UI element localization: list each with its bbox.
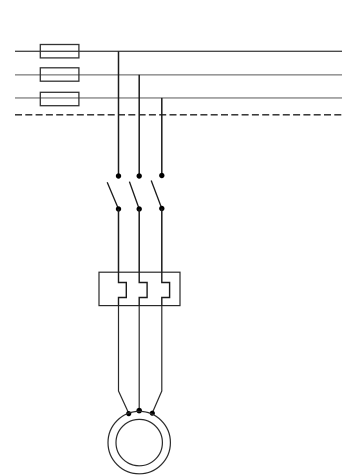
switch Q1 pole 3 upper contact (159, 173, 164, 178)
switch Q1 pole 1 blade (107, 182, 118, 209)
wire switch pole 2 to overload relay (138, 209, 140, 272)
wire switch pole 3 to overload relay (161, 209, 163, 273)
overload relay F4 heater element phase 3 (162, 272, 170, 305)
motor terminal V dot (136, 408, 142, 414)
bus L1 (15, 50, 342, 52)
switch Q1 pole 3 blade (151, 181, 162, 209)
fuse F1 (40, 45, 79, 58)
fuse F3 (40, 92, 79, 105)
motor terminal W dot (150, 411, 155, 416)
overload relay F4 heater element phase 1 (119, 272, 127, 305)
wire overload relay to motor terminal U (119, 306, 129, 414)
overload relay F4 enclosure (99, 272, 180, 305)
switch Q1 pole 1 lower contact (116, 206, 121, 211)
fuse F2 (40, 68, 79, 81)
switch Q1 pole 2 upper contact (137, 173, 142, 178)
bus L3 (15, 97, 342, 99)
switch Q1 pole 3 lower contact (159, 206, 164, 211)
neutral dashed bus N (15, 114, 342, 116)
motor M1 outer circle (108, 411, 170, 473)
overload relay F4 heater element phase 2 (139, 272, 147, 305)
motor terminal U dot (126, 411, 131, 416)
wire L1 tap to switch (118, 51, 120, 176)
wire L2 tap to switch (138, 75, 140, 176)
wire switch pole 1 to overload relay (118, 209, 120, 272)
switch Q1 pole 2 lower contact (137, 206, 142, 211)
bus L2 (15, 74, 342, 76)
wire overload relay to motor terminal V (138, 306, 140, 411)
motor M1 inner circle (116, 419, 162, 465)
switch Q1 pole 2 blade (129, 182, 139, 209)
wire L3 tap to switch (161, 98, 163, 176)
wire overload relay to motor terminal W (152, 306, 162, 413)
switch Q1 pole 1 upper contact (116, 173, 121, 178)
